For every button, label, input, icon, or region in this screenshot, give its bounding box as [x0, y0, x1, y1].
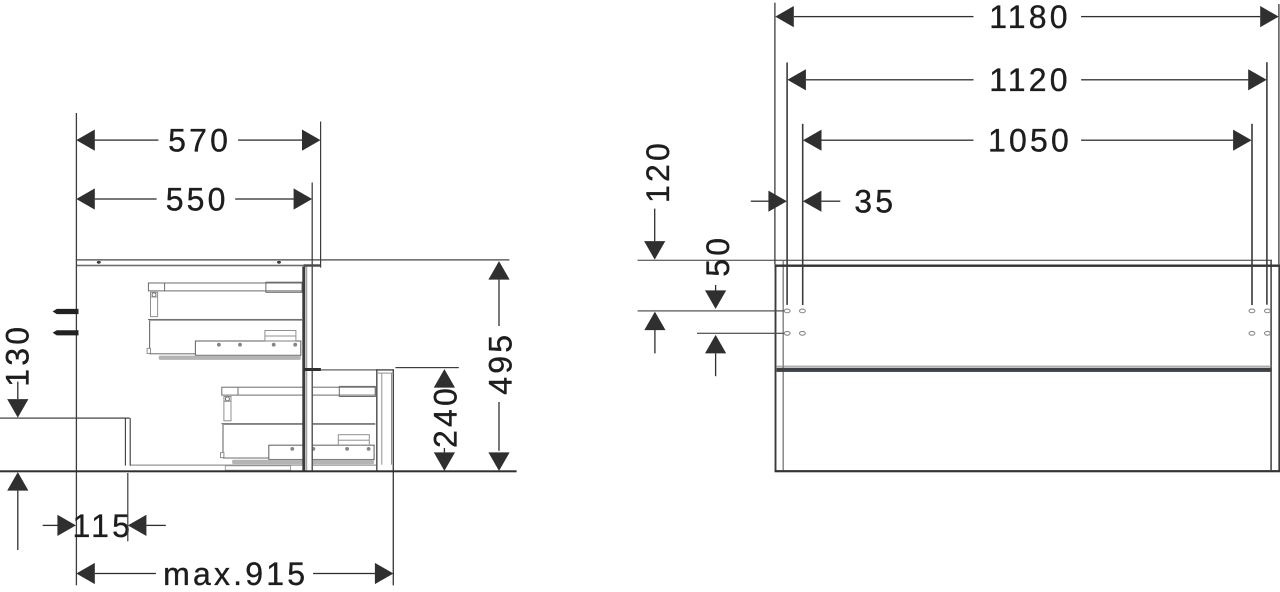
svg-text:1050: 1050 [988, 123, 1072, 159]
svg-text:50: 50 [700, 235, 736, 277]
svg-text:1180: 1180 [989, 0, 1071, 35]
svg-text:570: 570 [168, 122, 231, 158]
svg-text:130: 130 [0, 324, 35, 387]
svg-text:35: 35 [854, 184, 896, 220]
svg-text:max.915: max.915 [163, 556, 308, 592]
svg-text:550: 550 [166, 181, 229, 217]
svg-text:240: 240 [427, 385, 463, 448]
svg-text:1120: 1120 [989, 62, 1071, 98]
svg-text:115: 115 [72, 508, 133, 544]
svg-text:495: 495 [482, 332, 518, 395]
svg-text:120: 120 [640, 140, 676, 203]
